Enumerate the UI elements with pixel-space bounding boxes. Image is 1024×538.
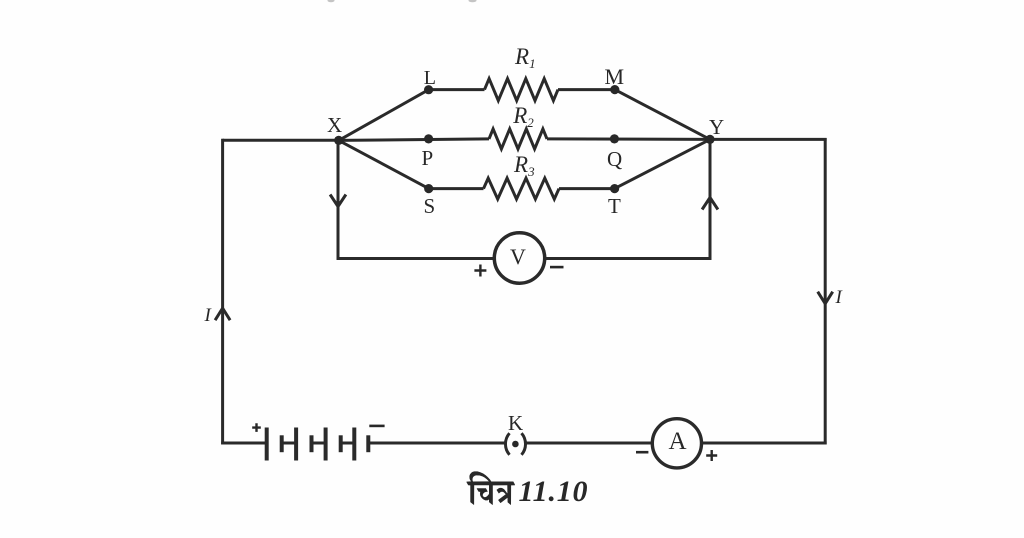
voltmeter loop: left drop from X — [337, 140, 340, 260]
label R3 — [514, 152, 535, 178]
label R2 — [513, 103, 534, 129]
branch1 wire R1 to M — [558, 88, 615, 91]
voltmeter loop: bottom wire left of V — [337, 257, 495, 260]
node M — [610, 85, 619, 94]
label K — [508, 411, 523, 436]
node L — [424, 85, 433, 94]
label P — [422, 146, 434, 171]
arrow on X drop (down chevron) — [330, 195, 346, 207]
label V meter — [510, 244, 526, 270]
voltmeter loop: bottom wire right of V — [544, 257, 711, 260]
ammeter A1 circle — [652, 419, 701, 468]
branch3 wire T to Y — [615, 139, 710, 188]
branch3 wire X to S — [339, 140, 429, 188]
voltmeter loop: right rise to Y — [709, 140, 712, 260]
voltmeter plus sign — [474, 265, 486, 277]
caption Devanagari word (vector path) — [467, 471, 516, 505]
node P — [424, 134, 433, 143]
wire: ammeter to right corner — [702, 442, 827, 445]
battery B1 plates — [267, 428, 369, 461]
label S — [424, 194, 436, 219]
ammeter plus sign — [706, 450, 717, 461]
label L — [424, 67, 436, 90]
battery minus sign — [369, 425, 384, 428]
wire: left vertical rail — [221, 139, 224, 445]
node X — [334, 136, 343, 145]
node Y — [705, 135, 714, 144]
node S — [424, 184, 433, 193]
wire: bottom-left to battery — [221, 442, 267, 445]
wire: top-right horizontal to Y — [710, 138, 827, 141]
branch3 wire S to R3 — [429, 187, 484, 190]
current arrow left rail (up chevron) — [215, 308, 230, 320]
label X — [327, 113, 342, 138]
branch2 wire X to R2 — [339, 139, 489, 141]
resistor R1 — [485, 79, 559, 101]
current label I left — [205, 305, 211, 327]
caption number 11.10 — [519, 475, 589, 509]
wire: key to ammeter — [526, 442, 652, 445]
arrow on Y rise (up chevron) — [702, 198, 718, 210]
key K contact dot — [512, 441, 519, 448]
current label I right — [836, 287, 842, 309]
ammeter minus sign — [636, 451, 648, 454]
key K arcs — [505, 433, 509, 455]
resistor R3 — [484, 178, 560, 199]
label Y — [709, 115, 724, 140]
current arrow right rail (down chevron) — [818, 292, 833, 304]
label M — [605, 64, 625, 90]
label T — [608, 194, 621, 219]
wire: top-left horizontal X to left rail — [223, 139, 339, 142]
wire: right vertical rail — [824, 138, 827, 444]
voltmeter minus sign — [550, 266, 564, 269]
node Q — [610, 134, 619, 143]
label A meter — [669, 428, 687, 456]
resistor R2 — [489, 129, 547, 149]
battery plus sign — [252, 423, 261, 432]
label R1 — [515, 44, 536, 70]
voltmeter V1 circle — [494, 233, 544, 283]
branch1 wire L to R1 — [429, 88, 485, 91]
branch3 wire R3 to T — [559, 187, 615, 190]
node T — [610, 184, 619, 193]
battery cell links — [282, 442, 296, 445]
branch1 wire M to Y — [615, 90, 710, 140]
branch2 wire R2 to Y — [547, 137, 710, 141]
stray scan specks at top edge — [328, 0, 477, 2]
wire: battery to key K — [368, 442, 505, 445]
label Q — [607, 147, 622, 172]
branch1 wire X to L — [339, 90, 429, 141]
